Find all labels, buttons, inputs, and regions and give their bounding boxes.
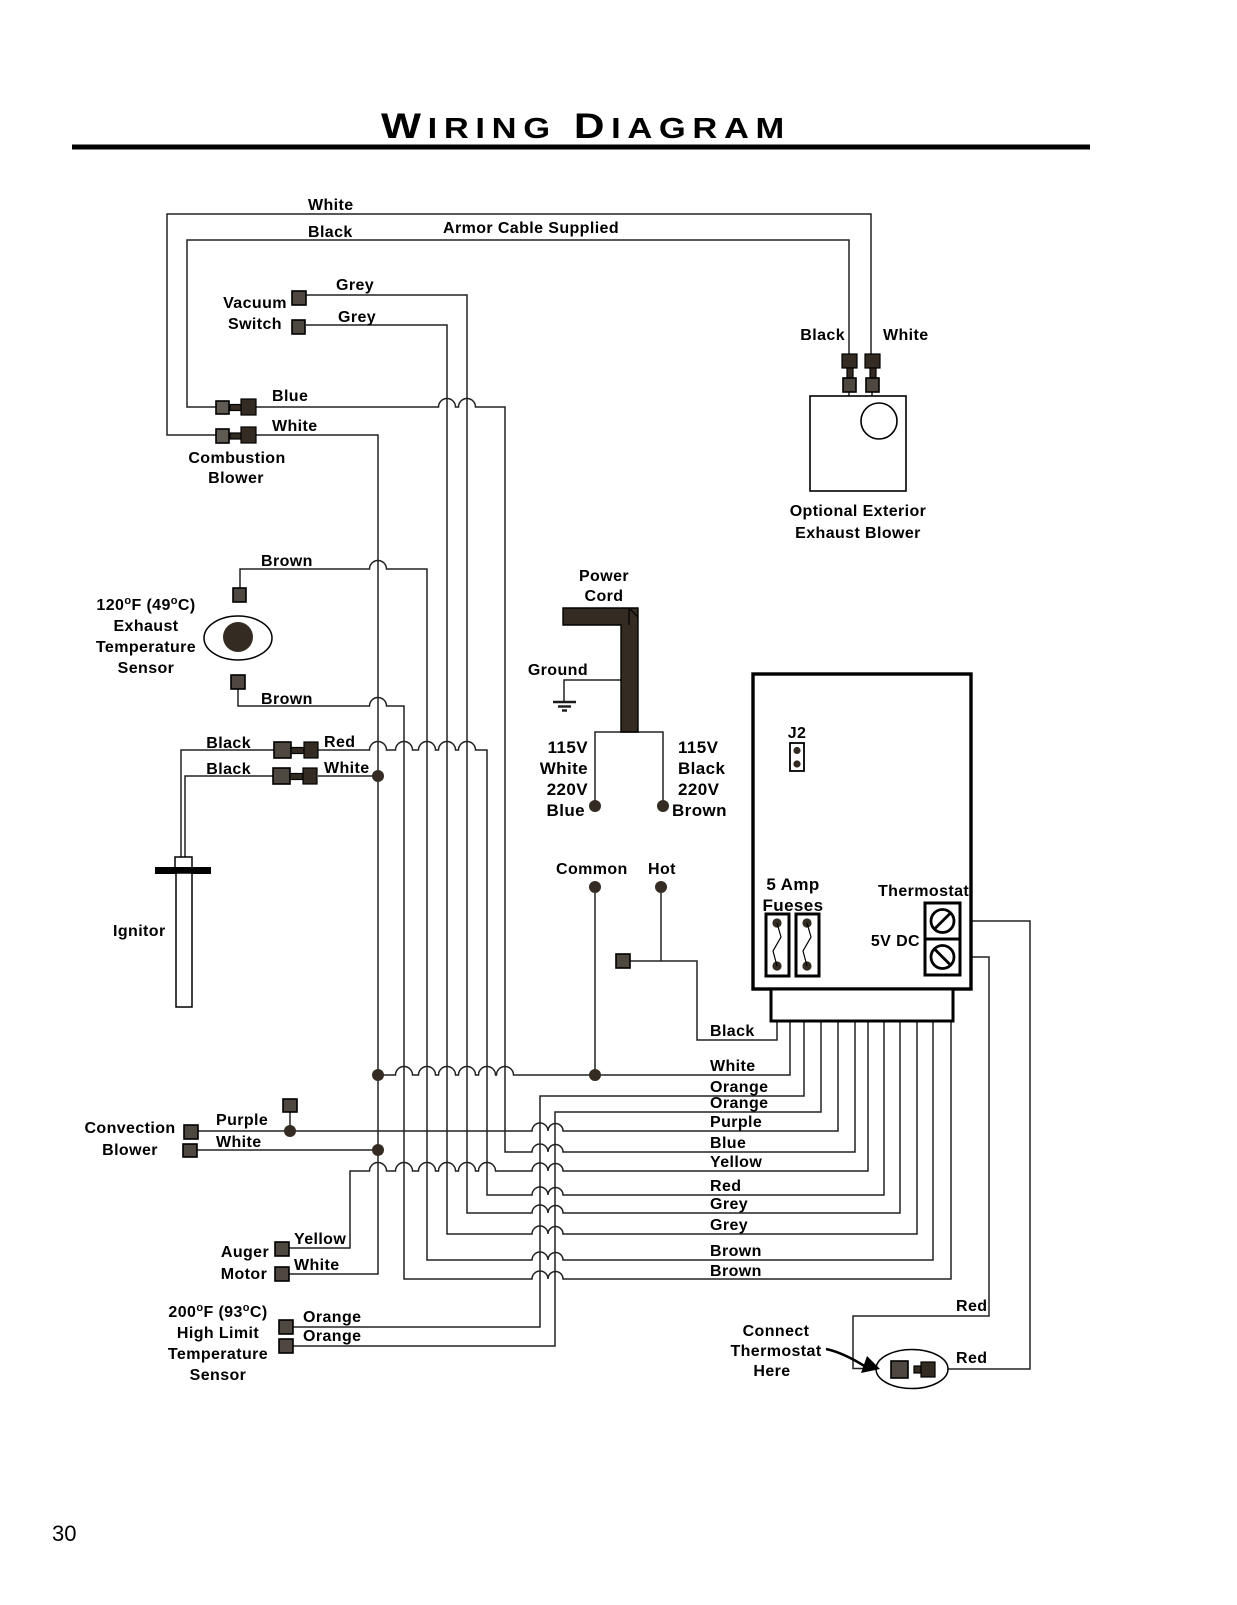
combustion blower blue connector pair bbox=[216, 399, 256, 415]
wire purple convection blower to board pin 5 bbox=[198, 1021, 838, 1131]
svg-text:White: White bbox=[540, 759, 588, 778]
node white fan row joins white net bbox=[372, 1069, 384, 1081]
node purple tap bbox=[284, 1125, 296, 1137]
exhaust sensor terminal bottom bbox=[231, 675, 245, 689]
wire armor cable black: combustion blower to exterior blower bbox=[187, 240, 849, 407]
svg-text:Ground: Ground bbox=[528, 662, 588, 679]
wire orange 1 high limit sensor to board pin 3 bbox=[293, 1021, 804, 1327]
svg-text:5V DC: 5V DC bbox=[871, 933, 920, 950]
svg-text:Convection: Convection bbox=[84, 1120, 175, 1137]
svg-text:Red: Red bbox=[710, 1178, 741, 1195]
wire power cord 115V white 220V blue leg bbox=[595, 732, 663, 806]
svg-text:Fueses: Fueses bbox=[763, 896, 824, 915]
node hot bbox=[655, 881, 667, 893]
wire white net: combustion blower down to auger motor white bbox=[256, 435, 378, 1274]
svg-text:Brown: Brown bbox=[710, 1263, 762, 1280]
svg-text:White: White bbox=[324, 760, 370, 777]
svg-text:30: 30 bbox=[52, 1521, 76, 1546]
svg-text:Common: Common bbox=[556, 861, 628, 878]
auger motor white terminal bbox=[275, 1267, 289, 1281]
wire white convection blower branch bbox=[197, 1149, 378, 1151]
fuse F1 bbox=[766, 914, 789, 976]
node 115V black 220V brown bbox=[657, 800, 669, 812]
ignitor black connector pair 1 bbox=[274, 742, 318, 758]
svg-text:115V: 115V bbox=[548, 738, 589, 757]
wires layer bbox=[167, 214, 1030, 1369]
svg-text:Power: Power bbox=[579, 568, 629, 585]
title WIRING DIAGRAM bbox=[381, 107, 791, 146]
svg-text:Black: Black bbox=[678, 759, 726, 778]
vacuum switch terminal 2 bbox=[292, 320, 305, 334]
svg-text:Sensor: Sensor bbox=[190, 1367, 247, 1384]
svg-text:Hot: Hot bbox=[648, 861, 676, 878]
fuse F2 bbox=[796, 914, 819, 976]
wire exterior blower stub white bbox=[871, 392, 873, 397]
svg-text:Armor Cable Supplied: Armor Cable Supplied bbox=[443, 220, 619, 237]
hot-common black connector square bbox=[616, 954, 630, 968]
svg-text:Cord: Cord bbox=[585, 588, 624, 605]
svg-text:Optional Exterior: Optional Exterior bbox=[790, 503, 927, 520]
node common joins white row bbox=[589, 1069, 601, 1081]
svg-text:White: White bbox=[883, 327, 929, 344]
exhaust temperature sensor disc bbox=[223, 622, 253, 652]
wire orange 2 high limit sensor to board pin 4 bbox=[293, 1021, 821, 1346]
svg-text:220V: 220V bbox=[547, 780, 589, 799]
svg-text:Exhaust: Exhaust bbox=[113, 618, 178, 635]
exterior blower black connector pair bbox=[842, 354, 857, 392]
svg-text:Ignitor: Ignitor bbox=[113, 923, 166, 940]
connect thermostat plug pair bbox=[891, 1361, 935, 1378]
wire exterior blower stub black bbox=[848, 392, 850, 397]
svg-text:Blue: Blue bbox=[272, 388, 308, 405]
wire red thermostat terminal to connect-here plug bbox=[935, 921, 1030, 1369]
wire blue combustion blower to board pin 6 bbox=[256, 399, 855, 1153]
wire red 5V DC terminal to connect-here plug bbox=[853, 957, 989, 1369]
svg-text:Black: Black bbox=[710, 1023, 755, 1040]
svg-text:Orange: Orange bbox=[710, 1079, 768, 1096]
svg-text:115V: 115V bbox=[678, 738, 719, 757]
svg-text:Connect: Connect bbox=[743, 1323, 810, 1340]
svg-text:Yellow: Yellow bbox=[294, 1231, 346, 1248]
combustion blower white connector pair bbox=[216, 427, 256, 443]
wire white fan row to board pin 2 bbox=[378, 1021, 790, 1075]
svg-text:Blower: Blower bbox=[208, 470, 264, 487]
svg-text:White: White bbox=[308, 197, 354, 214]
svg-text:Sensor: Sensor bbox=[118, 660, 175, 677]
svg-text:Purple: Purple bbox=[710, 1114, 762, 1131]
svg-text:Thermostat: Thermostat bbox=[878, 883, 969, 900]
svg-text:Brown: Brown bbox=[261, 691, 313, 708]
wire common line bbox=[594, 887, 596, 1075]
exhaust sensor terminal top bbox=[233, 588, 246, 602]
components layer bbox=[155, 291, 971, 1389]
svg-text:Blower: Blower bbox=[102, 1142, 158, 1159]
wire black ignitor lead 1 bbox=[181, 750, 274, 857]
arrow connect thermostat here bbox=[826, 1349, 880, 1373]
svg-text:Motor: Motor bbox=[221, 1266, 267, 1283]
connect thermostat here oval bbox=[876, 1350, 948, 1389]
wire brown 2 exhaust sensor to board pin 12 bbox=[238, 689, 951, 1279]
svg-text:Black: Black bbox=[206, 761, 251, 778]
ground symbol bbox=[553, 702, 576, 711]
ignitor body bbox=[155, 857, 211, 1007]
svg-text:Auger: Auger bbox=[221, 1244, 269, 1261]
svg-text:Grey: Grey bbox=[710, 1217, 748, 1234]
wire red ignitor to board pin 8 bbox=[318, 742, 884, 1195]
wire yellow auger motor to board pin 7 bbox=[289, 1021, 868, 1248]
thermostat screw terminal block bbox=[925, 903, 960, 975]
svg-text:J2: J2 bbox=[788, 725, 807, 742]
svg-text:Orange: Orange bbox=[303, 1328, 361, 1345]
svg-text:Switch: Switch bbox=[228, 316, 282, 333]
svg-text:White: White bbox=[272, 418, 318, 435]
svg-text:Red: Red bbox=[956, 1350, 987, 1367]
wire ground lead bbox=[564, 680, 621, 701]
svg-text:Temperature: Temperature bbox=[168, 1346, 268, 1363]
title rule bbox=[72, 145, 1090, 150]
wire purple tap stub bbox=[289, 1112, 291, 1126]
node ignitor white joins white net bbox=[372, 770, 384, 782]
power cord body bbox=[563, 608, 638, 732]
svg-text:Thermostat: Thermostat bbox=[730, 1343, 821, 1360]
svg-text:5 Amp: 5 Amp bbox=[766, 875, 819, 894]
ignitor black connector pair 2 bbox=[273, 768, 317, 784]
wire brown 1 exhaust sensor to board pin 11 bbox=[240, 561, 933, 1261]
svg-text:Grey: Grey bbox=[338, 309, 376, 326]
auger motor yellow terminal bbox=[275, 1242, 289, 1256]
svg-text:220V: 220V bbox=[678, 780, 720, 799]
svg-text:White: White bbox=[216, 1134, 262, 1151]
svg-text:Red: Red bbox=[324, 734, 355, 751]
wire white ignitor branch bbox=[318, 775, 378, 777]
high limit sensor orange terminal 1 bbox=[279, 1320, 293, 1334]
node 115V white 220V blue bbox=[589, 800, 601, 812]
jumper J2 bbox=[790, 743, 804, 771]
purple tap terminal bbox=[283, 1099, 297, 1112]
labels layer bbox=[84, 197, 987, 1384]
svg-text:Brown: Brown bbox=[710, 1243, 762, 1260]
convection blower white terminal bbox=[183, 1144, 197, 1157]
svg-text:Purple: Purple bbox=[216, 1112, 268, 1129]
high limit sensor orange terminal 2 bbox=[279, 1339, 293, 1353]
svg-text:Black: Black bbox=[308, 224, 353, 241]
svg-text:White: White bbox=[710, 1058, 756, 1075]
node convection white joins white net bbox=[372, 1144, 384, 1156]
wire grey 1 vacuum switch to board pin 9 bbox=[306, 295, 900, 1213]
svg-text:WIRING DIAGRAM: WIRING DIAGRAM bbox=[381, 107, 791, 146]
svg-text:Black: Black bbox=[800, 327, 845, 344]
svg-text:200oF (93oC): 200oF (93oC) bbox=[168, 1302, 267, 1321]
svg-text:White: White bbox=[294, 1257, 340, 1274]
wire grey 2 vacuum switch to board pin 10 bbox=[306, 325, 917, 1234]
svg-text:Temperature: Temperature bbox=[96, 639, 196, 656]
svg-text:Grey: Grey bbox=[710, 1196, 748, 1213]
wire hot line bbox=[660, 887, 662, 961]
svg-text:Brown: Brown bbox=[672, 801, 727, 820]
svg-text:Orange: Orange bbox=[303, 1309, 361, 1326]
svg-text:Blue: Blue bbox=[710, 1135, 746, 1152]
svg-text:Black: Black bbox=[206, 735, 251, 752]
svg-text:Brown: Brown bbox=[261, 553, 313, 570]
svg-text:Red: Red bbox=[956, 1298, 987, 1315]
board edge connector strip bbox=[771, 989, 953, 1021]
svg-text:120oF (49oC): 120oF (49oC) bbox=[96, 595, 195, 614]
svg-text:Orange: Orange bbox=[710, 1095, 768, 1112]
optional exterior exhaust blower box bbox=[810, 396, 906, 491]
wire black ignitor lead 2 bbox=[185, 776, 273, 857]
svg-text:Vacuum: Vacuum bbox=[223, 295, 287, 312]
convection blower purple terminal bbox=[184, 1125, 198, 1139]
svg-text:Combustion: Combustion bbox=[188, 450, 285, 467]
svg-text:Exhaust Blower: Exhaust Blower bbox=[795, 525, 921, 542]
control board U1 bbox=[753, 674, 971, 989]
vacuum switch terminal 1 bbox=[292, 291, 306, 305]
svg-text:Yellow: Yellow bbox=[710, 1154, 762, 1171]
svg-text:Grey: Grey bbox=[336, 277, 374, 294]
wire black line connector to board pin 1 bbox=[630, 961, 777, 1040]
svg-text:High Limit: High Limit bbox=[177, 1325, 259, 1342]
exterior blower white connector pair bbox=[865, 354, 880, 392]
exterior blower circle bbox=[861, 403, 897, 439]
exhaust temperature sensor oval bbox=[204, 616, 272, 660]
svg-text:Blue: Blue bbox=[547, 801, 585, 820]
svg-text:Here: Here bbox=[753, 1363, 790, 1380]
wire armor cable white: combustion blower to exterior blower bbox=[167, 214, 871, 435]
node common bbox=[589, 881, 601, 893]
